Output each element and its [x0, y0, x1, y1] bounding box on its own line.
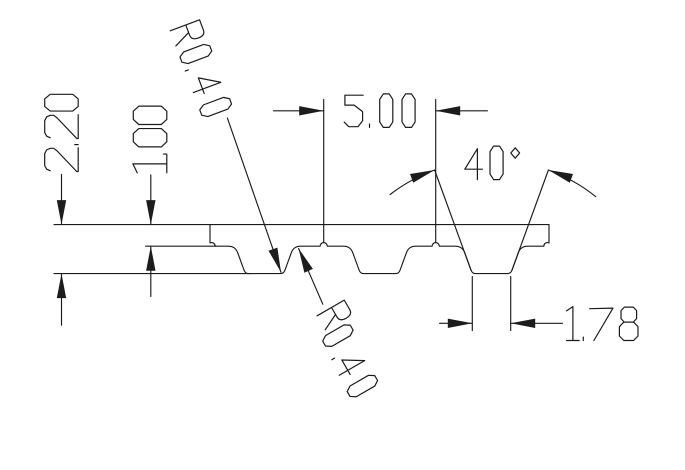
radius label R0.40 lower leader — [299, 249, 323, 305]
dim 40deg left flank extension line — [435, 170, 472, 270]
radius label R0.40 upper text — [170, 20, 233, 119]
dim 2.20 lower arrow — [61, 274, 63, 326]
dim text 1.78 — [567, 307, 639, 341]
dim text 1.00 — [133, 106, 167, 173]
dim text 2.20 — [45, 94, 79, 171]
dim 40deg right arc leader — [548, 170, 595, 197]
dim 5.00 left arrow — [274, 110, 324, 112]
belt back top line — [54, 224, 549, 226]
dim text 5.00 — [344, 94, 415, 128]
dim 1.00 upper arrow — [150, 175, 152, 225]
dim 5.00 right extension line — [435, 100, 437, 243]
dim 1.78 right extension line — [510, 277, 512, 331]
dim 40deg left arc leader — [390, 170, 435, 195]
dim 40deg right flank extension line — [512, 170, 549, 270]
dim 1.78 left extension line — [471, 277, 473, 331]
dim 5.00 right arrow — [436, 110, 488, 112]
dim 5.00 left extension line — [323, 100, 325, 243]
land extension line — [146, 245, 216, 247]
belt tooth profile — [210, 225, 549, 274]
dim text 40deg — [465, 146, 520, 180]
dim 1.78 left arrow — [440, 322, 473, 324]
radius label R0.40 upper leader — [227, 118, 281, 272]
dim 1.00 lower arrow — [150, 246, 152, 296]
dim 1.78 right arrow — [511, 322, 563, 324]
dim 2.20 upper arrow — [61, 175, 63, 225]
tooth bottom extension line — [54, 273, 251, 275]
radius label R0.40 lower text — [317, 300, 352, 330]
